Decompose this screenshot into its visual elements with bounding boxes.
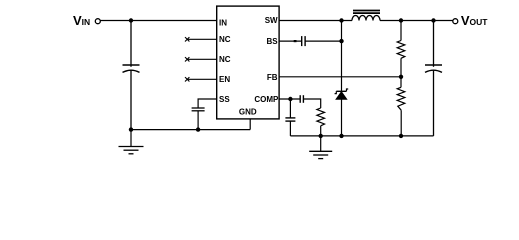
no-connect X mark NC1: [185, 37, 189, 41]
wire SS cap bottom lead: [197, 111, 199, 130]
ground left: [119, 130, 144, 154]
wire VIN to IN pin: [100, 20, 216, 22]
no-connect X mark NC2: [185, 57, 189, 61]
wire BS pin to cap: [279, 40, 302, 42]
wire inductor to VOUT: [380, 20, 453, 22]
wire right ground rail: [290, 135, 433, 137]
wire R1 to FB node: [400, 58, 402, 87]
capacitor C2 output (polarized): [425, 65, 442, 72]
svg-text:IN: IN: [82, 17, 91, 27]
svg-text:SW: SW: [265, 16, 278, 25]
wire SW node vertical to diode: [341, 21, 343, 92]
wire output cap top lead: [433, 21, 435, 67]
svg-text:NC: NC: [219, 55, 231, 64]
svg-text:COMP: COMP: [254, 95, 279, 104]
wire comp resistor to rail: [320, 126, 322, 136]
capacitor C_BS bootstrap: [302, 36, 305, 46]
node diode / rail junction: [339, 134, 343, 138]
wire EN pin lead: [188, 78, 217, 80]
wire BS cap to SW node: [305, 40, 341, 42]
resistor R_COMP: [317, 108, 325, 126]
wire GND pin drop: [249, 119, 251, 130]
resistor R1 feedback top: [397, 41, 405, 59]
wire input cap bottom lead: [130, 71, 132, 130]
ground middle: [309, 136, 332, 159]
stub mark on BS wire: [294, 40, 297, 42]
wire R2 to ground rail: [400, 110, 402, 136]
wire COMP pin lead: [279, 98, 300, 100]
node input cap / ground junction: [129, 127, 133, 131]
resistor R2 feedback bottom: [397, 87, 405, 110]
wire COMP cap to resistor: [303, 99, 320, 108]
wire SS pin lead: [198, 99, 217, 108]
svg-text:IN: IN: [219, 19, 227, 28]
wire diode anode to ground rail: [341, 99, 343, 136]
node COMP junction: [288, 97, 292, 101]
svg-text:EN: EN: [219, 75, 230, 84]
wire SW pin to inductor: [279, 20, 352, 22]
wire input cap top lead: [130, 21, 132, 67]
terminal VIN circle: [95, 19, 100, 24]
no-connect X mark EN: [185, 77, 189, 81]
wire NC pin 2 lead: [188, 58, 217, 60]
node output cap top junction: [431, 18, 435, 22]
node feedback divider top junction: [399, 18, 403, 22]
node FB junction: [399, 75, 403, 79]
svg-text:NC: NC: [219, 35, 231, 44]
wire output cap bottom lead: [433, 71, 435, 136]
node input junction: [129, 18, 133, 22]
svg-text:OUT: OUT: [470, 17, 489, 27]
IC U1 regulator box: [217, 6, 279, 119]
capacitor C_COMP series: [300, 95, 303, 103]
wire divider top lead: [400, 21, 402, 41]
diode D1 schottky: [335, 89, 349, 99]
inductor L1: [352, 11, 380, 21]
node R2 / rail junction: [399, 134, 403, 138]
terminal VIN label: [73, 13, 90, 28]
wire FB pin to divider: [279, 76, 401, 78]
wire NC pin 1 lead: [188, 38, 217, 40]
svg-text:GND: GND: [239, 108, 257, 117]
capacitor C1 input (polarized): [123, 65, 140, 72]
terminal VOUT label: [461, 13, 488, 28]
svg-text:FB: FB: [267, 73, 278, 82]
capacitor C_SS soft-start: [192, 108, 205, 111]
wire left ground rail: [130, 129, 250, 131]
svg-text:SS: SS: [219, 95, 230, 104]
node SS cap / ground rail junction: [196, 127, 200, 131]
node comp resistor / rail junction: [319, 134, 323, 138]
terminal VOUT circle: [453, 19, 458, 24]
node BS / SW-node junction: [339, 39, 343, 43]
svg-text:BS: BS: [266, 37, 278, 46]
capacitor C_COMP2 parallel: [285, 99, 295, 136]
node SW junction: [339, 18, 343, 22]
